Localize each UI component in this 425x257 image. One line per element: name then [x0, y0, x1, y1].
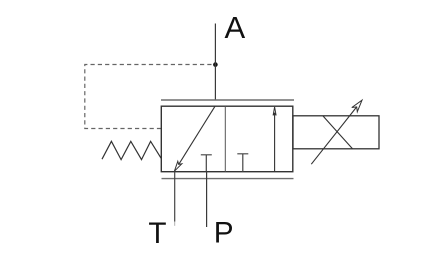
arrowhead of diagonal flow arrow [174, 161, 181, 171]
adjustment arrow shaft [311, 107, 356, 164]
svg-text:T: T [148, 217, 166, 250]
pilot line (dashed control line) [85, 65, 212, 129]
valve body [161, 106, 292, 172]
flow path arrow up (right position) [274, 113, 276, 172]
wire: port P line [206, 172, 208, 227]
flow path arrow A to T (diagonal, left position) [179, 106, 215, 164]
arrowhead of up arrow [273, 107, 276, 116]
wire: port T line [174, 172, 176, 222]
wire: port A line [214, 24, 216, 101]
proportional solenoid box [293, 116, 379, 149]
adjustment arrowhead [352, 100, 362, 112]
divider between positions [224, 106, 226, 172]
proportional bar bottom [162, 178, 294, 180]
node: junction dot on A line [213, 62, 218, 67]
spring (return spring) [102, 141, 161, 159]
svg-text:A: A [225, 10, 246, 45]
svg-text:P: P [214, 217, 234, 250]
blocked port symbol (right position) [237, 154, 248, 172]
proportional bar top [161, 99, 294, 101]
blocked port P symbol (left position) [201, 155, 212, 172]
solenoid cross line [323, 116, 353, 149]
